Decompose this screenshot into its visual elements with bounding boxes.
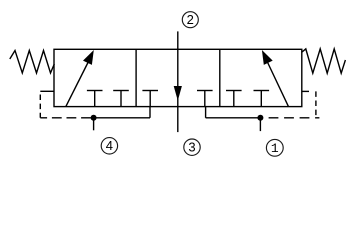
dashed enclosure left vertical xyxy=(39,91,41,118)
dashed enclosure right vertical xyxy=(315,91,317,117)
dashed enclosure bottom-right run xyxy=(269,117,320,119)
port label 1 xyxy=(266,139,283,156)
svg-text:2: 2 xyxy=(187,12,194,27)
port 2 vertical line with down arrow xyxy=(174,31,182,132)
right spring xyxy=(301,49,345,73)
blocked port T x=150.2 xyxy=(142,91,158,107)
blocked port T x=204.8 xyxy=(197,91,213,107)
dashed enclosure right tick xyxy=(302,90,309,92)
valve body envelope xyxy=(54,49,302,106)
blocked port T x=94.7 xyxy=(87,91,103,107)
left spring xyxy=(10,51,55,74)
blocked port T x=121 xyxy=(113,91,129,107)
position divider left xyxy=(135,49,137,106)
port label 2 xyxy=(182,12,198,28)
svg-text:3: 3 xyxy=(188,140,195,155)
junction dot port 1 xyxy=(257,115,263,121)
blocked port T x=261.3 xyxy=(254,91,270,107)
port label 3 xyxy=(184,139,200,155)
svg-text:1: 1 xyxy=(271,141,279,156)
right cell flow arrow xyxy=(262,50,289,106)
svg-text:4: 4 xyxy=(106,138,113,153)
left cell flow arrow xyxy=(66,50,94,106)
dashed enclosure left tick xyxy=(40,90,54,92)
port label 4 xyxy=(101,138,117,154)
position divider right xyxy=(219,49,221,106)
dashed enclosure bottom-left run xyxy=(40,117,93,119)
port 1 connector xyxy=(206,107,261,132)
blocked port T x=233.8 xyxy=(226,91,242,107)
port 4 connector xyxy=(94,107,150,131)
junction dot port 4 xyxy=(91,115,97,121)
